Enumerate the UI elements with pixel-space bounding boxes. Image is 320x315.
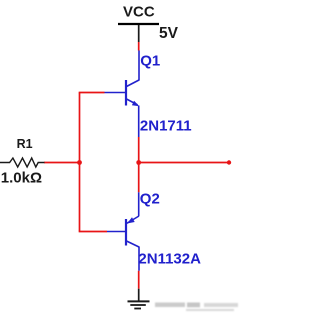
svg-text:1.0kΩ: 1.0kΩ (1, 169, 42, 186)
svg-text:2N1711: 2N1711 (140, 117, 192, 134)
svg-text:Q2: Q2 (140, 191, 160, 208)
svg-text:2N1132A: 2N1132A (138, 250, 201, 267)
svg-text:Q1: Q1 (140, 53, 160, 70)
svg-text:R1: R1 (17, 137, 33, 151)
svg-text:VCC: VCC (123, 4, 155, 21)
svg-text:5V: 5V (159, 25, 179, 42)
